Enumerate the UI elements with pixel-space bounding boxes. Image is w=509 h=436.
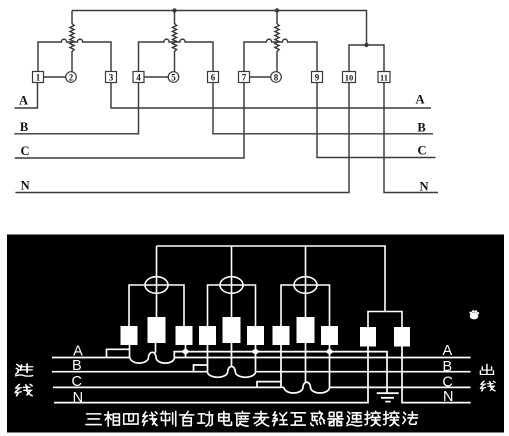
label: outgoing 出 [480,364,493,374]
meter terminal block 10 (panel) [360,327,376,347]
svg-text:B: B [20,120,28,134]
junction: CT secondary bus at x=185.5 [181,348,190,355]
label: incoming 线 [15,384,32,395]
wire: neutral N right from block 11 lead [402,347,471,403]
junction dot: bus / voltage coil 3 [275,8,279,12]
terminal box 10 [343,72,356,83]
terminal box 4 [133,72,144,83]
wire: CT secondary common bus to ground [174,352,387,393]
wire: block 9 lead through junction [329,345,331,387]
wire: phase B incoming to terminal 4 [14,83,138,134]
terminal circle 2 [66,72,77,83]
svg-text:N: N [21,179,30,193]
wire: block 2 voltage tap to CT-A cusp [155,343,157,353]
svg-text:5: 5 [171,72,176,82]
svg-text:1: 1 [36,72,41,82]
meter terminal block 7 (panel) [273,326,290,345]
wire: neutral N outgoing from terminal 11 [384,83,438,193]
svg-text:B: B [417,120,425,134]
svg-text:2: 2 [69,72,74,82]
title caption: 三相四线制有功电度表经互感器连接接法 [86,411,418,426]
label: incoming 进 [16,364,33,376]
svg-text:10: 10 [345,72,354,82]
terminal box 7 [239,72,250,83]
svg-text:A: A [415,92,424,106]
wire: voltage lead through coil 2 (panel) [231,246,233,317]
wire: current terminals drop pair coil 1 [129,285,184,326]
wire: voltage-coil common bus (top) [72,11,367,46]
current coil (current element) phase 1, terminals 1->3 [38,39,111,71]
svg-text:6: 6 [211,72,216,82]
meter terminal block 2 tall (panel) [148,317,166,343]
svg-text:N: N [73,390,83,406]
wire: block 6 lead through junction [255,345,257,372]
svg-text:C: C [442,374,452,390]
svg-text:C: C [417,143,426,157]
meter terminal block 3 (panel) [176,326,193,345]
wire: CT-C primary jog stub [257,382,281,388]
meter terminal block 6 (panel) [247,326,264,345]
wire: block 8 voltage tap to CT-C cusp [305,343,307,383]
meter terminal block 4 (panel) [199,326,216,345]
meter terminal block 8 tall (panel) [297,317,315,343]
wire: current terminals drop pair coil 2 [208,285,256,326]
wire: voltage lead through coil 3 (panel) [305,246,307,317]
voltage coil (potential element) phase 2, terminals bus->5 [172,11,176,72]
svg-text:7: 7 [242,72,247,82]
cursor hand icon [470,310,480,319]
wire: phase B line with CT-B primary loops [52,371,208,373]
wire: CT-B primary jog stub [194,365,208,372]
svg-text:C: C [72,374,82,390]
voltage coil 1 (panel ellipse) [145,277,168,294]
svg-text:8: 8 [274,72,279,82]
voltage coil 2 (panel ellipse) [220,277,243,294]
meter terminal block 11 (panel) [394,327,410,347]
wire: block 1 lead [129,345,131,358]
meter terminal block 9 (panel) [321,326,338,345]
wire: current terminals drop pair coil 3 [281,285,330,326]
wire: block 7 lead [280,345,282,387]
terminal box 3 [106,72,117,83]
svg-text:N: N [443,389,453,405]
svg-text:4: 4 [136,72,141,82]
junction: CT secondary bus at x=329.5 [325,348,334,355]
junction dot: bus drop / 10-11 tie bar [364,43,368,47]
meter panel background [7,235,504,433]
wire: panel 10-11 tie bar [368,312,402,328]
wire: phase A line with CT-A primary loops [52,357,130,359]
svg-text:B: B [72,358,82,374]
meter terminal block 1 (panel) [121,326,138,345]
voltage coil (potential element) phase 1, terminals bus->2 [70,11,74,72]
wire: phase A incoming stub to terminal 1 [15,83,38,109]
meter terminal block 5 tall (panel) [223,317,241,343]
svg-text:N: N [419,179,428,193]
terminal box 9 [312,72,323,83]
terminal box 6 [208,72,219,83]
terminal circle 8 [271,72,282,83]
current coil (current element) phase 2, terminals 4->6 [139,39,214,71]
ground [377,393,399,401]
wire: phase C incoming to terminal 7 [15,83,244,159]
voltage coil 3 (panel ellipse) [294,277,317,294]
wire: phase C line with CT-C primary loops [53,386,284,388]
svg-text:11: 11 [380,72,388,82]
terminal box 11 [378,72,390,83]
wire: panel voltage common bus (top) [157,246,386,312]
wire: terminal 4 to terminal 5 [144,76,168,78]
terminal circle 5 [168,72,179,83]
junction: CT secondary bus at x=255.5 [251,348,260,355]
wire: phase B outgoing from terminal 6 [213,83,433,134]
wire: terminal 7 to terminal 8 [250,76,271,78]
wire: block 5 voltage tap to CT-B cusp [231,343,233,367]
wire: terminal 1 to terminal 2 [44,76,66,78]
wire: CT-A primary jog stub [107,349,130,357]
wire: phase A outgoing from terminal 3 [111,83,431,109]
label: outgoing 线 [481,381,496,391]
wire: neutral N left to block 10 lead [54,347,368,403]
svg-text:B: B [442,359,452,375]
svg-text:A: A [19,93,28,107]
svg-text:C: C [20,144,29,158]
terminal box 1 [33,72,44,83]
voltage coil (potential element) phase 3, terminals bus->8 [275,11,279,72]
svg-text:A: A [73,343,83,359]
wire: phase C outgoing from terminal 9 [317,83,436,158]
svg-text:3: 3 [109,72,114,82]
wire: voltage lead through coil 1 (panel) [156,246,158,317]
svg-text:A: A [442,343,452,359]
wire: block 4 lead [207,345,209,372]
wire: block 3 lead through junction [185,345,187,358]
current coil (current element) phase 3, terminals 7->9 [244,39,317,71]
junction dot: bus / voltage coil 2 [172,8,176,12]
wire: terminal 10-11 tie bar [349,45,384,72]
wire: neutral N incoming to terminal 10 [15,83,349,193]
svg-text:9: 9 [315,72,320,82]
